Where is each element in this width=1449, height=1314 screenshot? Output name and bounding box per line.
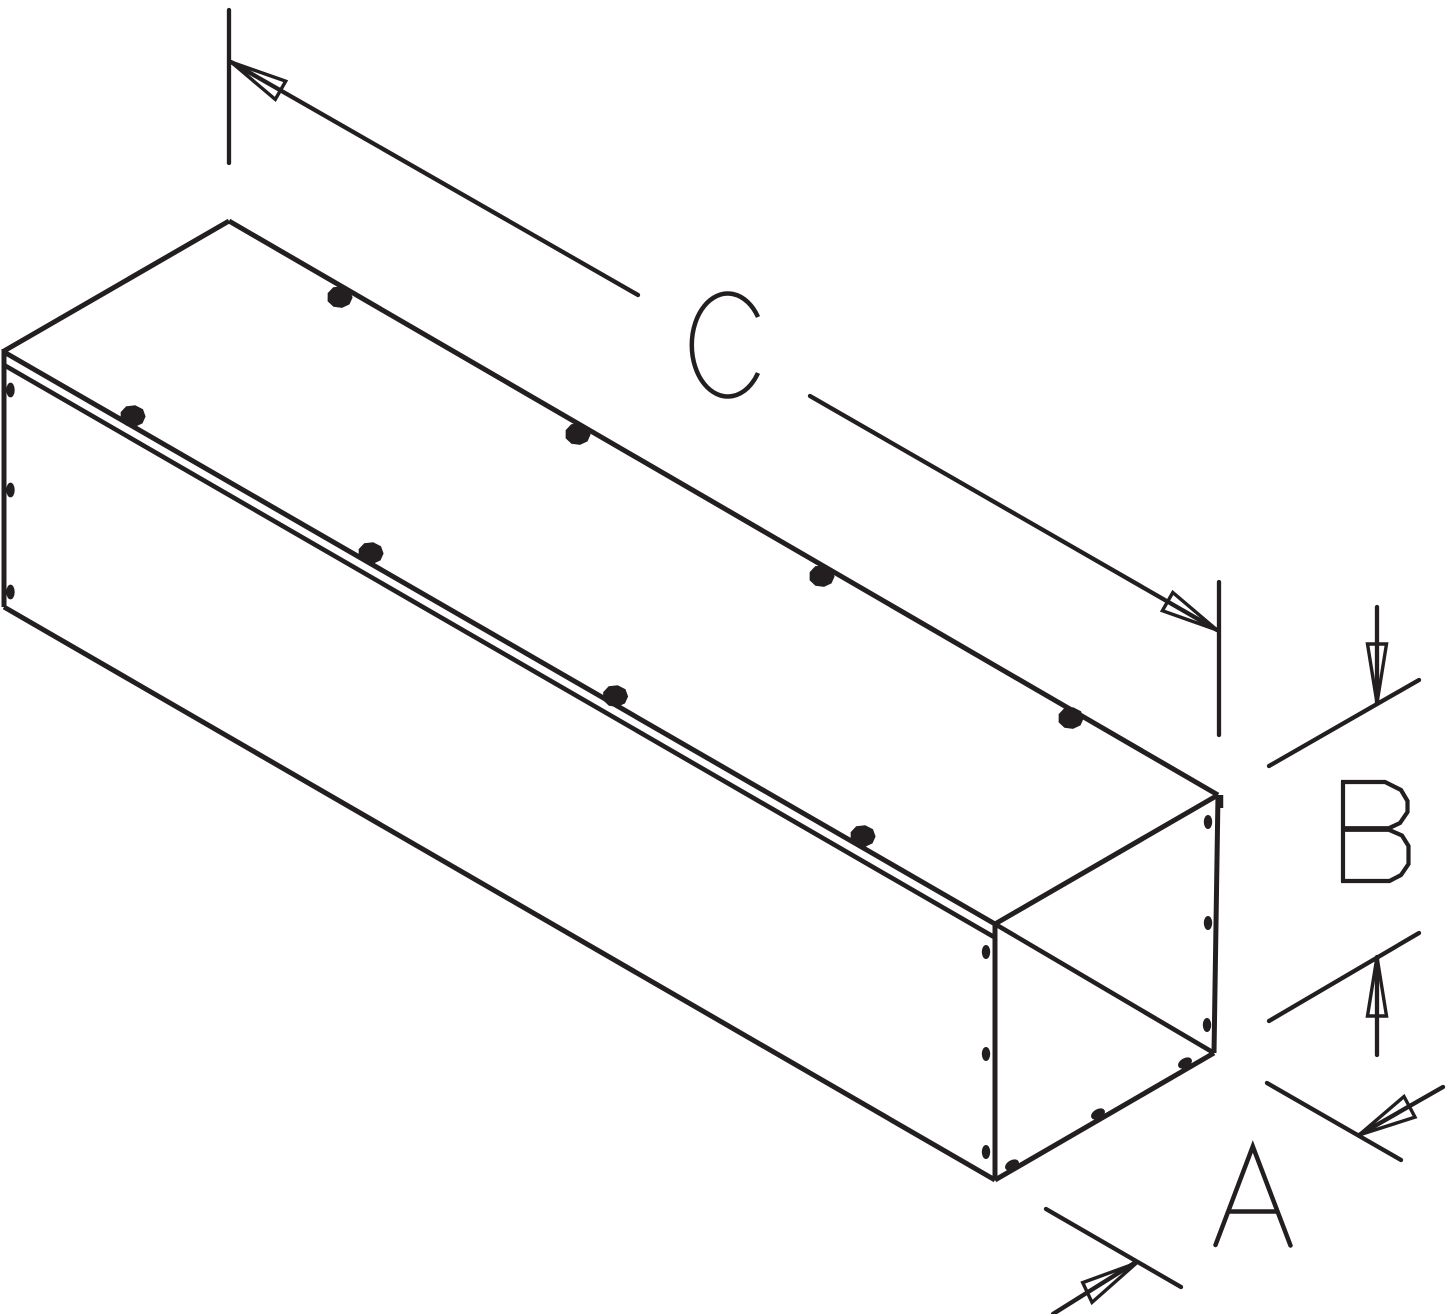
cover screw S6 seam row [359, 542, 384, 564]
mounting hole bottom edge 1 [1003, 1157, 1021, 1173]
dimension C right arrowhead [1162, 593, 1217, 631]
mounting hole bottom edge 3 [1176, 1055, 1194, 1071]
cover screw S8 seam row [851, 825, 876, 847]
mounting hole far column 2 [6, 483, 14, 498]
wireway near-front vertical edge [993, 924, 998, 1180]
label B [1341, 781, 1409, 882]
dimension C right extension line [1217, 582, 1221, 735]
cover screw S3 top row [810, 565, 835, 587]
dimension C left extension line [227, 10, 231, 163]
wireway far-front vertical edge [2, 349, 7, 607]
mounting hole far column 1 [6, 383, 14, 398]
dimension A lower extension line [1046, 1209, 1181, 1287]
dimension B up arrowhead [1368, 957, 1387, 1016]
dimension A upper dimension line [1359, 1087, 1443, 1135]
dimension B bottom extension line [1269, 933, 1419, 1021]
mounting hole right column 3 [1203, 1018, 1211, 1032]
mounting hole near front column 2 [982, 1047, 990, 1061]
wireway interior diagonal edge [995, 924, 1214, 1053]
wireway cover seam line [4, 365, 994, 937]
mounting hole bottom edge 2 [1089, 1106, 1107, 1122]
cover screw S5 seam row [121, 405, 146, 427]
label C [692, 294, 758, 397]
dimension C line left segment [231, 62, 638, 295]
wireway bottom-front edge [4, 607, 995, 1180]
wireway top-front edge [4, 352, 995, 924]
mounting hole far column 3 [6, 585, 14, 600]
dimension B down arrow shaft [1375, 607, 1379, 703]
wireway far-end top edge [4, 221, 229, 351]
dimension C left arrowhead [231, 62, 286, 99]
dimension A lower dimension line [1053, 1262, 1136, 1314]
dimension C line right segment [810, 396, 1217, 630]
dimension A upper extension line [1267, 1083, 1401, 1160]
wireway back-top edge [229, 221, 1218, 795]
cover screw S2 top row [566, 423, 591, 445]
cover screw S1 top row [328, 286, 353, 308]
dimension B top extension line [1269, 680, 1419, 766]
cover screw S4 top row [1059, 707, 1084, 729]
cover screw S7 seam row [603, 685, 628, 707]
mounting hole right column 2 [1204, 916, 1212, 930]
mounting hole near front column 1 [982, 945, 990, 959]
dimension B up arrow shaft [1375, 957, 1379, 1055]
dimension A lower arrowhead [1083, 1263, 1137, 1302]
wireway corner stub [1220, 795, 1224, 808]
wireway near-end top edge [995, 795, 1218, 924]
mounting hole right column 1 [1204, 815, 1212, 829]
mounting hole near front column 3 [982, 1145, 990, 1159]
dimension A upper arrowhead [1359, 1097, 1415, 1136]
dimension B down arrowhead [1368, 644, 1387, 703]
label A [1216, 1147, 1291, 1246]
wireway near-end bottom edge [995, 1053, 1214, 1180]
wireway near-back vertical edge [1214, 795, 1218, 1053]
